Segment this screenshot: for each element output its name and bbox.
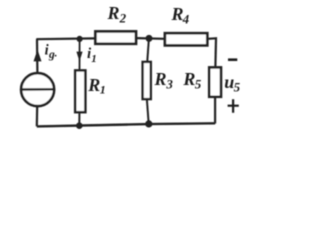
arrow i1 (current into R1) [76,52,82,62]
svg-text:3: 3 [165,76,173,91]
wire R5 bottom to bottom rail [214,98,216,124]
svg-text:1: 1 [100,83,106,97]
label R4 [171,4,190,26]
resistor R2 [95,31,136,43]
polarity plus [228,99,239,113]
wire R3 bottom to bottom rail [147,100,149,124]
svg-text:5: 5 [195,76,202,91]
label R3 [154,69,174,91]
wire node B to R3 top [147,38,149,61]
svg-text:5: 5 [234,80,241,95]
wire R1 bottom to bottom rail [78,113,80,126]
label iS [45,42,58,60]
polarity minus [228,58,237,61]
wire top rail left (corner to R2) [36,37,94,40]
svg-text:R: R [107,3,120,23]
svg-text:1: 1 [91,53,97,65]
node C junction dot (bottom R1) [76,122,83,129]
wire top rail middle (R2 to R4) [137,37,164,40]
wire source bottom to bottom rail [36,106,39,126]
label u5 [224,72,240,95]
node A junction dot [77,36,83,42]
wire bottom rail [37,123,215,126]
svg-text:2: 2 [119,11,127,26]
label R5 [182,69,201,91]
wire top rail right (R4 to corner, down to R5) [208,38,216,66]
label R1 [87,75,106,97]
resistor R5 [209,67,221,96]
current source iS [21,73,54,106]
label R2 [107,3,127,25]
node B junction dot [146,35,153,42]
svg-text:.: . [55,48,58,60]
svg-text:4: 4 [182,12,190,27]
arrow iS (current direction up) [34,50,42,62]
svg-text:R: R [87,75,100,95]
svg-text:R: R [154,69,167,89]
wire node A to R1 top [79,39,81,70]
svg-text:R: R [171,4,184,24]
wire left riser (rail to source top) [36,39,39,73]
resistor R3 [143,62,151,99]
resistor R1 [75,70,85,112]
resistor R4 [165,33,207,45]
svg-text:R: R [182,69,195,89]
node D junction dot (bottom R3) [145,120,152,127]
label i1 [87,46,97,65]
